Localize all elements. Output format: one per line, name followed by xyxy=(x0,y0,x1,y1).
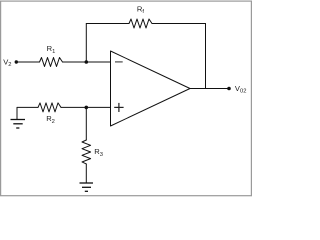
ground (left, at R2 input) xyxy=(11,120,26,129)
node Vo2 output dot xyxy=(227,87,231,91)
op-amp minus sign xyxy=(115,61,123,63)
op-amp U1 xyxy=(111,51,191,126)
resistor R3 xyxy=(82,140,91,164)
node V2 input dot xyxy=(15,60,18,63)
output wire xyxy=(190,88,229,90)
wire feedback top left xyxy=(86,23,129,25)
resistor Rf xyxy=(129,19,152,28)
wire R1 to op-amp inverting input xyxy=(63,61,111,63)
wire V2 to R1 xyxy=(16,61,39,63)
wire ground stub to R2 xyxy=(17,107,38,119)
resistor R1 xyxy=(40,58,63,67)
wire R2 to op-amp non-inverting input xyxy=(61,106,111,108)
node B junction (non-inverting input / R3) xyxy=(85,106,89,110)
ground (bottom, under R3) xyxy=(80,183,94,191)
wire feedback top right xyxy=(152,23,206,25)
node A junction (inverting input / feedback) xyxy=(85,60,89,64)
wire feedback left vertical xyxy=(85,24,87,63)
resistor R2 xyxy=(38,103,61,112)
wire junction down to R3 xyxy=(85,107,87,140)
wire feedback right vertical xyxy=(205,24,207,89)
op-amp plus sign xyxy=(114,103,123,112)
wire R3 to ground xyxy=(85,164,87,183)
